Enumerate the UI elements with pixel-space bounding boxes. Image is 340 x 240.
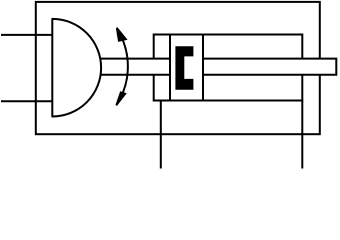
- vane segment (D shape): [52, 19, 101, 117]
- bottom port line 1: [160, 101, 162, 169]
- bottom port line 2: [301, 101, 303, 169]
- swivel arrow arc: [117, 29, 128, 105]
- arrowhead bottom: [116, 91, 127, 106]
- cylinder body: [154, 35, 303, 101]
- shaft and piston rod bar: [100, 59, 337, 75]
- pilot port line 1 (upper left): [1, 34, 52, 36]
- enclosure box: [36, 2, 320, 134]
- coupling bracket (black C): [175, 46, 193, 90]
- pilot port line 2 (lower left): [1, 100, 52, 102]
- arrowhead top: [116, 27, 128, 42]
- piston: [170, 35, 203, 101]
